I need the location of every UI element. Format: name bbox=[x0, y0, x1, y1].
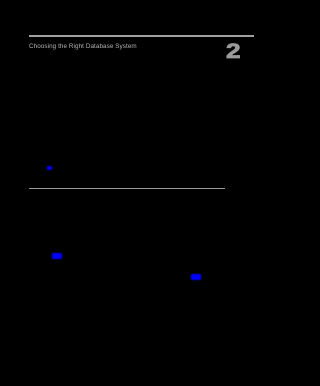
link blob 3 bbox=[191, 274, 201, 280]
chapter number 2 bbox=[226, 39, 241, 64]
link blob 2 bbox=[52, 253, 63, 259]
running head text bbox=[29, 43, 169, 50]
footnote rule bbox=[29, 188, 225, 190]
link blob 1 bbox=[47, 166, 52, 170]
header rule bbox=[29, 35, 254, 38]
